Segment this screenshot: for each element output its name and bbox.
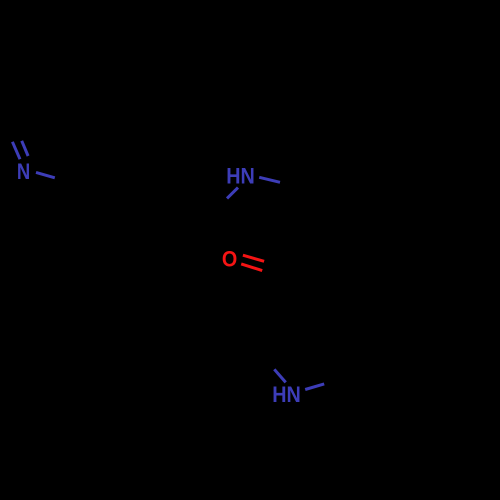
wire: C=O double bond upper line <box>243 255 264 261</box>
pyridine N (ring nitrogen, top-left) <box>17 161 30 185</box>
wire: indole N-C bond (up-left) <box>274 369 285 382</box>
svg-text:HN: HN <box>226 164 255 188</box>
wire: amine N-C bond (down-left) <box>227 188 238 199</box>
wire: amine N-C bond (to right) <box>259 177 280 182</box>
svg-text:HN: HN <box>272 383 301 407</box>
carbonyl O <box>222 247 237 271</box>
svg-text:N: N <box>17 161 30 185</box>
wire: C=O double bond lower line <box>241 264 262 271</box>
wire: indole N-C bond (up-right) <box>305 384 324 390</box>
secondary amine HN (middle) <box>226 164 255 188</box>
svg-text:O: O <box>222 247 237 271</box>
wire: C=N double bond main line (pyridine) <box>22 141 28 156</box>
wire: N-C single bond (pyridine, to right) <box>36 172 55 177</box>
indole HN (bottom) <box>272 383 301 407</box>
wire: C=N double bond inner line (pyridine) <box>12 142 20 159</box>
